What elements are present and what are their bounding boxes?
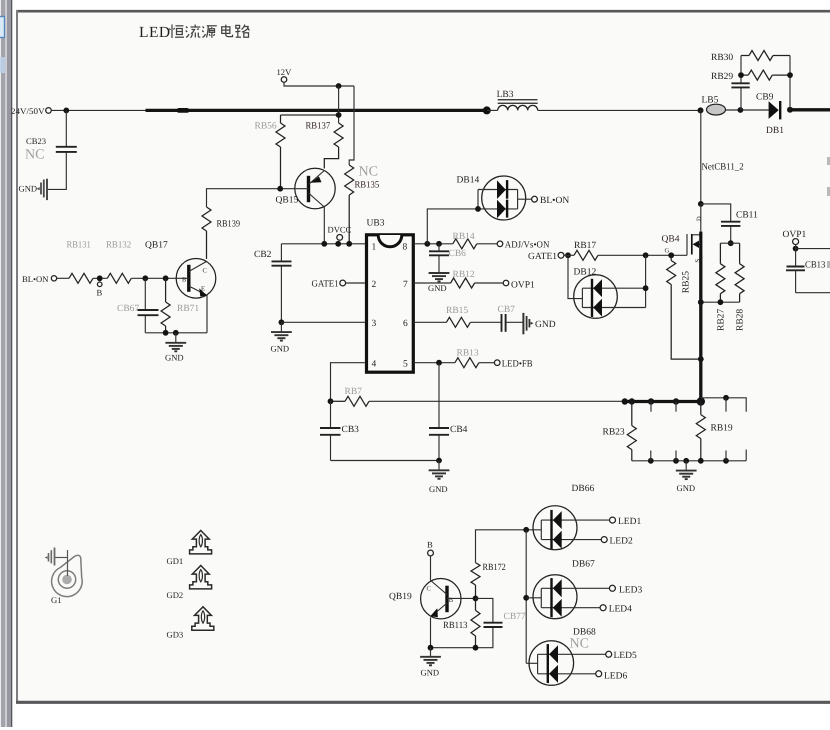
wire DVCC rail bbox=[281, 243, 365, 245]
svg-text:GD2: GD2 bbox=[167, 590, 184, 600]
svg-text:RB131: RB131 bbox=[67, 241, 92, 251]
junction CB9 tap bbox=[738, 107, 744, 113]
svg-text:RB13: RB13 bbox=[457, 349, 479, 359]
wire DB12 right leg bbox=[645, 255, 647, 307]
wire RB14 to terminal bbox=[477, 243, 497, 245]
wire LB3 to LB5 bbox=[538, 109, 701, 111]
svg-text:DB1: DB1 bbox=[766, 126, 784, 136]
svg-text:RB113: RB113 bbox=[443, 621, 468, 631]
junction diode bus top bbox=[523, 527, 529, 533]
junction gnd rail 4 bbox=[698, 458, 704, 464]
title glyph dian bbox=[222, 25, 233, 37]
sheet top border bbox=[16, 10, 830, 13]
ground CB6 bbox=[429, 273, 450, 281]
ground (left-bar style) CB23 bbox=[37, 179, 47, 200]
wire feedback rail bbox=[369, 400, 624, 402]
edge fragment 3 bbox=[827, 261, 830, 268]
ground QB19 bbox=[420, 648, 441, 666]
transistor QB19 (mirrored) bbox=[421, 579, 461, 619]
svg-text:3: 3 bbox=[372, 319, 377, 329]
wire RB56-RB137 tie bbox=[281, 114, 339, 116]
ground QB17 bbox=[165, 333, 186, 352]
svg-text:LB5: LB5 bbox=[702, 96, 719, 106]
wire pin8 row bbox=[413, 243, 453, 245]
G1 inner pad bbox=[62, 575, 72, 585]
svg-text:UB3: UB3 bbox=[367, 219, 385, 229]
junction RB56/base bbox=[277, 186, 283, 192]
diode DB1 bbox=[769, 101, 781, 119]
wire rail right extension bbox=[701, 398, 746, 412]
dual diode DB12 bbox=[574, 275, 646, 319]
dual diode DB14 bbox=[478, 176, 526, 220]
junction RB135 bottom bbox=[346, 241, 352, 247]
resistor RB27 bbox=[716, 243, 725, 302]
wire RB132 to QB17 base bbox=[131, 277, 189, 279]
wire DB68 input bbox=[526, 662, 537, 664]
svg-text:2: 2 bbox=[372, 280, 377, 290]
svg-text:LED3: LED3 bbox=[619, 585, 642, 595]
junction DB12 top rail bbox=[643, 285, 649, 291]
capacitor CB4 bbox=[429, 428, 449, 461]
capacitor CB67 bbox=[138, 278, 159, 333]
dual diode DB67 bbox=[533, 575, 609, 619]
svg-text:GND: GND bbox=[535, 320, 556, 330]
wire pin5 row bbox=[413, 362, 455, 364]
svg-text:B: B bbox=[182, 277, 187, 284]
svg-text:RB30: RB30 bbox=[711, 53, 733, 63]
svg-text:GD3: GD3 bbox=[167, 630, 184, 640]
junction CB23 tap bbox=[63, 108, 69, 114]
svg-text:LED: LED bbox=[139, 24, 171, 41]
wire pin2 bbox=[346, 282, 365, 284]
junction rail GND bbox=[173, 330, 179, 336]
svg-text:GND: GND bbox=[677, 483, 696, 493]
wire CB23 to ground bbox=[48, 188, 67, 190]
svg-text:RB14: RB14 bbox=[453, 232, 475, 242]
svg-text:RB71: RB71 bbox=[177, 304, 199, 314]
svg-text:RB132: RB132 bbox=[106, 241, 131, 251]
svg-text:LED5: LED5 bbox=[614, 651, 637, 661]
junction rail left end bbox=[622, 398, 628, 404]
fiducial GD1 bbox=[190, 531, 212, 554]
resistor RB56 bbox=[276, 115, 285, 189]
resistor RB172 bbox=[471, 563, 480, 599]
svg-text:DB14: DB14 bbox=[457, 176, 480, 186]
terminal LED4 bbox=[600, 605, 606, 611]
wire QB17 emitter down bbox=[206, 295, 208, 333]
wire QB19 base bbox=[447, 597, 476, 599]
junction drain node bbox=[698, 201, 704, 207]
junction DB12 right leg bbox=[643, 252, 649, 258]
svg-text:LED•FB: LED•FB bbox=[502, 360, 533, 370]
wire B to QB19 collector bbox=[430, 556, 432, 581]
svg-text:CB3: CB3 bbox=[342, 425, 360, 435]
IC UB3 box bbox=[367, 235, 414, 372]
svg-text:OVP1: OVP1 bbox=[511, 280, 535, 290]
wire bus to LB3 bbox=[487, 109, 498, 111]
wire RB27/RB28 bottom rail bbox=[701, 301, 740, 303]
terminal node B bbox=[97, 282, 102, 287]
svg-text:E: E bbox=[201, 286, 205, 293]
wire current-sense rail thick bbox=[624, 400, 701, 403]
resistor RB14 bbox=[453, 239, 477, 249]
terminal BL-ON bbox=[51, 276, 56, 281]
svg-text:DB67: DB67 bbox=[572, 560, 595, 570]
resistor RB135 bbox=[345, 165, 354, 244]
junction DB14 input bbox=[475, 206, 481, 212]
wire drain to CB11 bbox=[701, 204, 731, 221]
ground sense rail bbox=[676, 461, 697, 479]
junction tie bbox=[336, 112, 342, 118]
svg-text:CB67: CB67 bbox=[117, 304, 139, 314]
G1 ground tie bbox=[55, 557, 68, 559]
wire pin7 row bbox=[413, 282, 450, 284]
resistor RB131 bbox=[69, 273, 93, 283]
blue toolbar button bbox=[0, 17, 5, 38]
junction bottom rail source bbox=[698, 299, 704, 305]
resistor RB139 bbox=[202, 207, 211, 259]
wire output thick bbox=[790, 108, 830, 111]
junction blob on bus bbox=[179, 108, 187, 113]
junction node B bbox=[97, 275, 103, 281]
junction CB2/GND/pin3 bbox=[279, 319, 285, 325]
title glyph heng bbox=[169, 25, 184, 39]
resistor RB12 bbox=[451, 278, 475, 288]
svg-text:RB139: RB139 bbox=[217, 220, 241, 230]
svg-text:BL•ON: BL•ON bbox=[540, 196, 569, 206]
junction RB7/CB3 bbox=[328, 398, 334, 404]
svg-text:ADJ/Vs•ON: ADJ/Vs•ON bbox=[505, 241, 550, 251]
wire emitter ground rail bbox=[145, 332, 207, 334]
svg-text:NC: NC bbox=[25, 148, 44, 163]
svg-text:B: B bbox=[427, 539, 433, 549]
svg-text:DB12: DB12 bbox=[574, 268, 597, 278]
junction gnd rail 5 bbox=[723, 458, 729, 464]
svg-text:GATE1: GATE1 bbox=[528, 252, 557, 262]
wire main bus thick bbox=[146, 109, 487, 112]
wire RB27/RB28 top rail bbox=[720, 242, 739, 244]
window chrome strip bbox=[1, 0, 12, 727]
wire bottom ground rail bbox=[632, 460, 746, 462]
MOSFET QB4 bbox=[687, 204, 701, 255]
junction CB67 tap bbox=[142, 275, 148, 281]
svg-text:B: B bbox=[97, 288, 103, 298]
capacitor CB2 bbox=[272, 244, 365, 322]
junction gnd rail 1 bbox=[648, 458, 654, 464]
edge fragment 2 bbox=[827, 187, 830, 196]
resistor RB29 bbox=[741, 70, 790, 80]
svg-text:RB23: RB23 bbox=[603, 428, 625, 438]
ferrite bead LB5 bbox=[707, 104, 726, 115]
svg-text:CB23: CB23 bbox=[26, 136, 46, 146]
junction 12V/RB137 bbox=[336, 83, 342, 89]
capacitor CB7 bbox=[502, 314, 523, 332]
wire GATE1 to RB17 bbox=[564, 254, 574, 256]
wire LB5 to DB1 bbox=[726, 109, 769, 111]
mounting lug G1 bbox=[52, 555, 83, 596]
junction CB4 ground bbox=[436, 458, 442, 464]
svg-text:RB12: RB12 bbox=[453, 270, 475, 280]
svg-text:RB56: RB56 bbox=[255, 122, 277, 132]
svg-text:CB7: CB7 bbox=[498, 305, 516, 315]
wire OVP1 right bbox=[796, 248, 830, 250]
wire RB12 to terminal bbox=[475, 282, 504, 284]
terminal BL-ON right bbox=[532, 196, 538, 202]
wire DB67 input bbox=[526, 597, 541, 599]
svg-text:D: D bbox=[696, 216, 703, 221]
wire QB4 source thick bbox=[699, 255, 702, 402]
svg-text:QB4: QB4 bbox=[662, 235, 680, 245]
svg-text:RB27: RB27 bbox=[717, 309, 727, 331]
svg-text:GND: GND bbox=[271, 344, 290, 354]
junction DB1 out bbox=[787, 107, 793, 113]
wire snubber left rail bbox=[740, 56, 742, 83]
faint blue mark bbox=[0, 57, 5, 73]
junction RB29 right bbox=[787, 72, 793, 78]
svg-text:C: C bbox=[203, 268, 207, 275]
svg-text:GD1: GD1 bbox=[167, 556, 184, 566]
resistor RB113 bbox=[471, 598, 480, 647]
wire diode bus vertical bbox=[525, 530, 527, 664]
junction RB25/source bbox=[698, 356, 704, 362]
resistor RB28 bbox=[735, 243, 744, 302]
wire QB15 base bbox=[207, 189, 309, 207]
wire 12V feed bbox=[284, 82, 354, 86]
svg-text:DVCC: DVCC bbox=[328, 225, 352, 235]
svg-text:CB6: CB6 bbox=[449, 249, 467, 259]
ground CB2 bbox=[271, 322, 292, 340]
junction CB6 tap bbox=[436, 241, 442, 247]
wire pin6 row bbox=[413, 321, 446, 323]
junction RB29 left bbox=[738, 72, 744, 78]
resistor RB7 bbox=[331, 396, 370, 406]
resistor RB137 bbox=[324, 123, 343, 169]
wire pin3 bbox=[281, 321, 365, 323]
wire RB172 to diode bus bbox=[476, 530, 542, 563]
junction bottom rail RB27 bbox=[718, 299, 724, 305]
terminal LED5 bbox=[606, 651, 612, 657]
ground (bar style) G1 bbox=[45, 548, 55, 566]
svg-text:G: G bbox=[665, 248, 670, 255]
terminal ADJ/Vs-ON bbox=[497, 241, 503, 247]
junction CB11/RB27 rail bbox=[728, 240, 734, 246]
junction RB23 tap bbox=[629, 398, 635, 404]
fiducial GD2 bbox=[190, 566, 212, 589]
terminal LED-FB bbox=[494, 360, 500, 366]
svg-text:4: 4 bbox=[372, 360, 377, 370]
fiducial GD3 bbox=[192, 607, 214, 630]
svg-text:7: 7 bbox=[403, 280, 408, 290]
dual diode DB66 bbox=[533, 506, 610, 550]
capacitor CB13 bbox=[786, 245, 805, 293]
junction DB67 input bbox=[523, 595, 529, 601]
title glyph lu bbox=[235, 25, 249, 38]
wire snubber right rail bbox=[789, 56, 791, 110]
svg-text:GND: GND bbox=[429, 484, 448, 494]
title glyph yuan bbox=[202, 26, 217, 38]
svg-text:NC: NC bbox=[359, 165, 378, 180]
junction gnd rail 3 bbox=[683, 458, 689, 464]
svg-text:RB28: RB28 bbox=[736, 309, 746, 331]
svg-text:QB15: QB15 bbox=[276, 196, 299, 206]
terminal OVP1 right bbox=[793, 239, 799, 245]
svg-text:1: 1 bbox=[372, 243, 377, 253]
terminal LED2 bbox=[601, 537, 607, 543]
transistor QB17 bbox=[176, 259, 216, 299]
terminal OVP1 bbox=[503, 280, 509, 286]
transistor QB15 bbox=[295, 168, 335, 208]
wire to DB14 bbox=[427, 209, 478, 244]
wire 12V drop to resistor row bbox=[338, 86, 340, 123]
svg-text:GND: GND bbox=[19, 183, 38, 193]
ground CB3/CB4 bbox=[429, 461, 450, 479]
junction OVP1 bbox=[793, 246, 799, 252]
terminal LED3 bbox=[609, 585, 615, 591]
wire RB131 to RB132 bbox=[93, 277, 107, 279]
svg-text:RB25: RB25 bbox=[682, 271, 692, 293]
resistor RB23 bbox=[627, 402, 636, 461]
resistor RB19 bbox=[696, 402, 705, 461]
terminal 12V bbox=[281, 77, 287, 83]
stub up B bbox=[675, 451, 677, 461]
wire RB13 to terminal bbox=[479, 362, 495, 364]
wire 24V input bbox=[51, 109, 146, 111]
junction RB71 tap bbox=[163, 275, 169, 281]
svg-text:CB11: CB11 bbox=[736, 211, 758, 221]
svg-text:QB17: QB17 bbox=[145, 241, 168, 251]
junction emitter/GND bbox=[428, 645, 434, 651]
capacitor CB3 bbox=[320, 401, 341, 460]
edge fragment 1 bbox=[827, 157, 830, 165]
svg-text:LED2: LED2 bbox=[610, 536, 633, 546]
svg-text:CB9: CB9 bbox=[756, 93, 774, 103]
wire CB13 bottom right bbox=[796, 292, 830, 294]
junction DB14 drop bbox=[424, 241, 430, 247]
svg-text:8: 8 bbox=[403, 243, 408, 253]
junction stub B bbox=[673, 398, 679, 404]
svg-text:RB15: RB15 bbox=[446, 306, 468, 316]
svg-text:GND: GND bbox=[165, 353, 184, 363]
capacitor CB11 bbox=[721, 222, 740, 244]
svg-text:LED6: LED6 bbox=[604, 671, 627, 681]
terminal 24V/50V bbox=[46, 108, 52, 114]
dual diode DB68 bbox=[529, 641, 606, 686]
stub up A bbox=[650, 451, 652, 461]
stub down A bbox=[650, 402, 652, 412]
sheet bottom border bbox=[16, 701, 830, 704]
resistor RB71 bbox=[161, 278, 170, 333]
wire DB14 out bbox=[518, 198, 532, 200]
junction rail RB71 bbox=[163, 330, 169, 336]
svg-text:C: C bbox=[427, 586, 431, 593]
junction RB113 bottom bbox=[473, 645, 479, 651]
wire QB19 emitter down bbox=[430, 618, 432, 648]
svg-text:RB137: RB137 bbox=[306, 122, 331, 132]
svg-text:CB13: CB13 bbox=[805, 261, 826, 271]
resistor RB30 bbox=[741, 51, 790, 61]
terminal GATE1 pin2 bbox=[340, 280, 346, 286]
junction bus/LB3 bbox=[483, 106, 491, 114]
power port DVCC bbox=[337, 235, 343, 241]
stub down B bbox=[675, 402, 677, 412]
svg-text:RB7: RB7 bbox=[345, 387, 363, 397]
stub up C bbox=[725, 451, 727, 461]
resistor RB132 bbox=[107, 273, 131, 283]
junction NetCB11_2 tap bbox=[698, 107, 704, 113]
junction DVCC stub bbox=[335, 241, 341, 247]
capacitor CB77 bbox=[476, 598, 503, 647]
svg-text:RB135: RB135 bbox=[355, 181, 380, 191]
capacitor CB6 bbox=[429, 244, 449, 273]
capacitor CB23 bbox=[56, 110, 77, 189]
junction QB15 emitter bbox=[321, 241, 327, 247]
svg-text:BL•ON: BL•ON bbox=[22, 274, 49, 284]
title glyph liu bbox=[186, 25, 201, 38]
junction stub A bbox=[648, 398, 654, 404]
wire GATE1 down to DB12 bbox=[568, 255, 582, 298]
wire NetCB11_2 vertical bbox=[700, 110, 702, 203]
resistor RB13 bbox=[455, 358, 479, 368]
wire RB17 to gate bbox=[598, 254, 687, 256]
svg-text:CB4: CB4 bbox=[450, 425, 468, 435]
terminal LED1 bbox=[610, 517, 616, 523]
svg-text:24V/50V: 24V/50V bbox=[11, 106, 45, 116]
svg-text:GATE1: GATE1 bbox=[312, 280, 339, 290]
sheet left border bbox=[16, 10, 18, 704]
junction source/rail bbox=[697, 397, 705, 405]
svg-text:GND: GND bbox=[421, 668, 440, 678]
svg-text:RB172: RB172 bbox=[483, 563, 507, 573]
wire QB15 emitter to DVCC bbox=[323, 207, 325, 244]
stub up D bbox=[745, 450, 747, 461]
svg-text:RB19: RB19 bbox=[711, 424, 733, 434]
junction base/RB172/RB113 bbox=[473, 596, 479, 602]
svg-text:LB3: LB3 bbox=[497, 90, 514, 100]
terminal GATE1 net bbox=[558, 252, 564, 258]
terminal B (QB19) bbox=[428, 550, 434, 556]
junction GATE1/DB12 bbox=[565, 252, 571, 258]
junction gnd rail 2 bbox=[673, 458, 679, 464]
svg-text:NetCB11_2: NetCB11_2 bbox=[702, 163, 744, 173]
inductor LB3 bbox=[498, 100, 538, 111]
resistor RB17 bbox=[574, 250, 598, 260]
svg-text:RB29: RB29 bbox=[711, 72, 733, 82]
resistor RB15 bbox=[446, 317, 470, 327]
wire 12V to RB135 bbox=[349, 86, 354, 165]
wire CB3/CB4 ground rail bbox=[331, 460, 440, 462]
svg-text:LED1: LED1 bbox=[618, 517, 641, 527]
wire RB15 to CB7 bbox=[470, 321, 501, 323]
terminal LED6 bbox=[596, 671, 602, 677]
svg-text:6: 6 bbox=[403, 319, 408, 329]
svg-text:GND: GND bbox=[428, 283, 447, 293]
stub down C bbox=[725, 398, 727, 412]
svg-text:DB66: DB66 bbox=[572, 484, 595, 494]
svg-text:CB77: CB77 bbox=[504, 612, 526, 622]
svg-text:G1: G1 bbox=[51, 595, 62, 605]
resistor RB25 bbox=[667, 255, 701, 359]
svg-text:CB2: CB2 bbox=[254, 250, 272, 260]
svg-text:LED4: LED4 bbox=[609, 605, 632, 615]
junction RB25 tap bbox=[668, 252, 674, 258]
wire pin4 drop bbox=[331, 363, 365, 402]
svg-text:12V: 12V bbox=[277, 67, 293, 77]
svg-text:NC: NC bbox=[570, 637, 589, 652]
ground (right-bar style) CB7 bbox=[523, 313, 533, 334]
svg-text:QB19: QB19 bbox=[389, 592, 412, 602]
wire pin5 to CB4 bbox=[438, 363, 440, 428]
junction stub C bbox=[723, 395, 729, 401]
